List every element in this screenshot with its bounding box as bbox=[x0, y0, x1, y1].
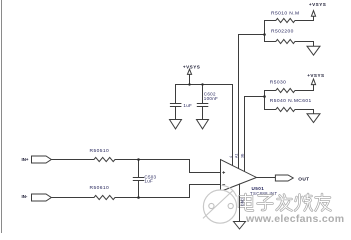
svg-text:R5030: R5030 bbox=[270, 80, 287, 86]
svg-text:4: 4 bbox=[229, 156, 233, 158]
svg-text:+VSYS: +VSYS bbox=[183, 65, 200, 70]
svg-text:R502200: R502200 bbox=[271, 29, 294, 35]
svg-text:www.elecfans.com: www.elecfans.com bbox=[245, 213, 344, 225]
svg-text:3B: 3B bbox=[241, 153, 245, 158]
svg-text:IN+: IN+ bbox=[22, 157, 29, 162]
svg-text:R50510: R50510 bbox=[90, 148, 110, 154]
svg-text:A1: A1 bbox=[235, 154, 239, 158]
svg-text:R50610: R50610 bbox=[90, 185, 110, 191]
svg-text:1uF: 1uF bbox=[144, 179, 153, 184]
svg-text:GND: GND bbox=[240, 198, 244, 206]
svg-text:1uF: 1uF bbox=[183, 103, 192, 108]
svg-text:100nF: 100nF bbox=[204, 96, 218, 101]
svg-text:IN-: IN- bbox=[22, 194, 28, 199]
svg-text:R5010 N.M: R5010 N.M bbox=[271, 11, 300, 17]
svg-text:R5040 N.MC601: R5040 N.MC601 bbox=[270, 98, 312, 104]
svg-text:OUT: OUT bbox=[298, 177, 309, 183]
svg-text:+VSYS: +VSYS bbox=[307, 73, 324, 78]
svg-text:+VSYS: +VSYS bbox=[309, 2, 326, 7]
